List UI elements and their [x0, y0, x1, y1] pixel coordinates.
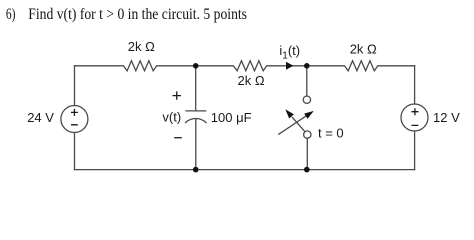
svg-text:Find v(t) for t > 0 in the cir: Find v(t) for t > 0 in the circuit. 5 po…	[28, 4, 247, 23]
svg-text:t = 0: t = 0	[318, 126, 344, 141]
svg-text:i1(t): i1(t)	[279, 43, 300, 62]
svg-text:24 V: 24 V	[27, 110, 54, 125]
svg-text:12 V: 12 V	[433, 110, 460, 125]
svg-text:6): 6)	[6, 4, 16, 23]
svg-text:2k Ω: 2k Ω	[350, 42, 377, 57]
svg-text:2k Ω: 2k Ω	[128, 39, 155, 54]
svg-text:100 μF: 100 μF	[211, 110, 252, 125]
svg-text:v(t): v(t)	[162, 110, 181, 125]
svg-text:2k Ω: 2k Ω	[238, 73, 265, 88]
